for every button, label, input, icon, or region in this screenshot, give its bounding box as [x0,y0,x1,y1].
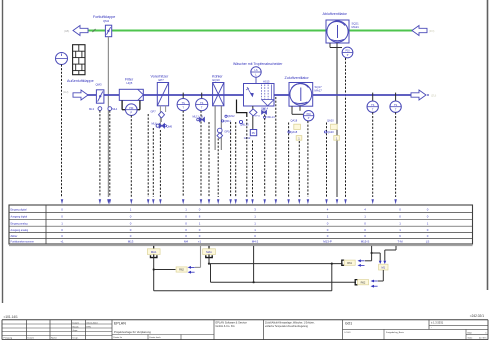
svg-text:40 / 371: 40 / 371 [479,337,487,339]
svg-text:Außenluftklappe: Außenluftklappe [67,79,94,83]
svg-text:Datum: Datum [28,336,35,339]
svg-text:GO1: GO1 [345,322,352,326]
svg-text:TS: TS [182,102,186,105]
svg-text:(FO): (FO) [429,29,434,33]
svg-text:Gepr.: Gepr. [73,329,79,332]
svg-text:Funktionskennummer: Funktionskennummer [11,241,35,244]
svg-text:Zuluftventilator: Zuluftventilator [285,76,310,80]
svg-text:M1: M1 [381,265,385,269]
svg-text:QA20: QA20 [327,118,334,122]
svg-text:EQ10: EQ10 [213,78,221,82]
svg-text:(ZU): (ZU) [431,94,436,98]
svg-text:Seite: Seite [468,336,474,339]
svg-text:QM6: QM6 [167,124,173,128]
svg-text:EP7: EP7 [159,78,165,82]
svg-text:Ersatz durch: Ersatz durch [150,336,161,339]
svg-text:M4-2: M4-2 [252,240,259,244]
svg-text:TS: TS [200,102,204,105]
svg-text:R62: R62 [361,280,366,284]
svg-text:einfache Temperatur-/Feuchte-R: einfache Temperatur-/Feuchte-Regelung [265,325,309,328]
svg-text:Ausgang analog: Ausgang analog [11,229,29,232]
svg-text:Urspr.: Urspr. [73,336,79,339]
svg-text:M15-S: M15-S [361,240,370,244]
svg-text:GP11: GP11 [255,115,261,117]
svg-text:QA18: QA18 [291,130,298,134]
svg-text:TS: TS [371,104,375,107]
svg-text:PDI: PDI [307,113,311,116]
svg-text:Freigung: Freigung [4,336,13,339]
svg-text:ML4: ML4 [112,107,118,111]
svg-text:Bearb.: Bearb. [73,325,80,328]
svg-text:± 1.3.5531: ± 1.3.5531 [431,321,444,325]
svg-text:QM12: QM12 [228,114,236,118]
svg-text:PDI: PDI [129,107,133,110]
svg-text:M13-P: M13-P [323,240,332,244]
svg-text:PDI: PDI [346,50,350,53]
svg-text:Name: Name [51,337,58,339]
svg-text:QM4: QM4 [103,19,110,23]
svg-text:Ausgang digital: Ausgang digital [11,215,28,218]
svg-text:+1: +1 [60,240,64,244]
svg-text:MA1: MA1 [206,250,212,254]
svg-text:T-M: T-M [398,240,404,244]
svg-text:Datum: Datum [73,321,80,324]
svg-text:=242.02/1: =242.02/1 [470,314,484,318]
svg-text:Zähler: Zähler [11,235,18,238]
svg-text:Ersatz für: Ersatz für [114,336,123,339]
svg-text:=101.14/1: =101.14/1 [4,315,18,319]
svg-text:-: - [431,327,432,330]
svg-text:GmbH & Co. KG: GmbH & Co. KG [216,324,235,328]
svg-text:ML3: ML3 [89,107,95,111]
svg-text:R61: R61 [347,261,352,265]
svg-text:LOGO: LOGO [345,332,351,334]
svg-text:EPLAN Software & Service: EPLAN Software & Service [216,321,248,325]
svg-text:GP7: GP7 [151,110,157,114]
svg-text:Eingang digital: Eingang digital [11,209,27,212]
svg-text:05.01.2014: 05.01.2014 [87,322,99,324]
svg-text:LS: LS [254,69,257,72]
svg-text:QM14: QM14 [261,106,269,110]
svg-text:QA18: QA18 [291,118,298,122]
svg-text:MA17: MA17 [315,89,323,93]
svg-text:M4: M4 [184,240,188,244]
svg-text:EPU: EPU [87,326,92,328]
svg-text:EPLAN: EPLAN [114,321,126,325]
svg-text:Eingang analog: Eingang analog [11,222,29,225]
svg-text:Freigabe/ing_Basis: Freigabe/ing_Basis [386,331,404,334]
svg-text:MA21: MA21 [352,25,360,29]
svg-text:TS: TS [394,104,398,107]
svg-text:VML14: VML14 [266,115,275,119]
svg-text:QA20: QA20 [327,130,334,134]
svg-text:LS: LS [426,240,430,244]
svg-text:Abluftventilator: Abluftventilator [323,12,348,16]
svg-text:+1: +1 [198,240,202,244]
svg-text:HS15: HS15 [263,79,270,83]
svg-text:M13: M13 [128,240,134,244]
svg-text:Projektvorlage für Verplanung: Projektvorlage für Verplanung [114,330,151,334]
svg-text:R62: R62 [179,268,184,272]
svg-text:ML11: ML11 [193,114,200,118]
svg-text:(AB): (AB) [64,29,69,33]
svg-text:Wäscher mit Tropfenabscheider: Wäscher mit Tropfenabscheider [233,62,283,66]
svg-text:MA1: MA1 [151,250,157,254]
svg-text:Blatt: Blatt [468,331,473,334]
svg-text:HQ5: HQ5 [127,81,133,85]
svg-text:(AU): (AU) [63,90,68,94]
svg-text:QM3: QM3 [96,82,103,86]
svg-text:PU: PU [252,131,256,135]
